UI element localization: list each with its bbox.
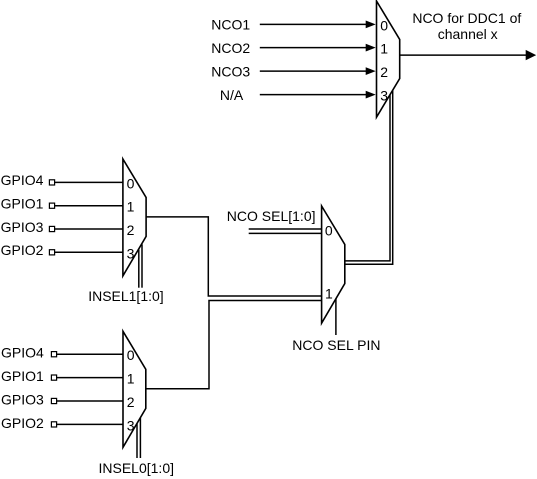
mux U3 INSEL0 [123,331,146,447]
svg-text:3: 3 [127,245,135,261]
svg-text:NCO for DDC1 of: NCO for DDC1 of [412,10,521,26]
wire U3 select bus INSEL0 [137,418,140,458]
svg-text:GPIO2: GPIO2 [1,415,44,431]
svg-text:1: 1 [380,41,388,57]
svg-text:GPIO4: GPIO4 [1,345,44,361]
wire NCO1 input [260,21,376,29]
wire NCO2 input [260,44,376,52]
svg-text:0: 0 [380,17,388,33]
svg-text:2: 2 [127,222,135,238]
mux U4 NCO SEL [322,206,345,323]
wire GPIO1 to U2 pin 1 [49,203,123,208]
wire GPIO2 to U2 pin 3 [49,250,123,255]
mux U1 NCO select [377,1,400,117]
svg-text:NCO SEL PIN: NCO SEL PIN [292,337,380,353]
wire U2 select bus INSEL1 [139,244,142,287]
svg-text:2: 2 [127,394,135,410]
svg-text:INSEL0[1:0]: INSEL0[1:0] [99,460,175,476]
svg-text:GPIO1: GPIO1 [1,368,44,384]
svg-text:0: 0 [127,347,135,363]
svg-text:GPIO3: GPIO3 [1,219,44,235]
svg-text:channel x: channel x [438,26,498,42]
wire GPIO2 to U3 pin 3 [51,422,123,427]
wire U3 output to U4 pin 1 (bus bit 0) [146,301,322,389]
svg-text:1: 1 [127,371,135,387]
svg-text:NCO SEL[1:0]: NCO SEL[1:0] [227,208,316,224]
wire NCO SEL[1:0] bus to U4 pin 0 [249,229,322,233]
svg-text:GPIO2: GPIO2 [1,242,44,258]
wire GPIO4 to U3 pin 0 [51,352,123,357]
svg-text:0: 0 [127,175,135,191]
svg-text:1: 1 [127,199,135,215]
svg-text:NCO3: NCO3 [211,63,250,79]
wire NCO3 input [260,67,376,75]
wire GPIO3 to U3 pin 2 [51,398,123,403]
svg-text:3: 3 [127,417,135,433]
wire U4 select NCO SEL PIN [335,299,337,336]
svg-text:3: 3 [380,88,388,104]
wire GPIO1 to U3 pin 1 [51,375,123,380]
svg-text:GPIO1: GPIO1 [1,196,44,212]
wire U1 output to NCO for DDC1 [400,50,537,60]
svg-text:INSEL1[1:0]: INSEL1[1:0] [88,288,164,304]
svg-text:NCO1: NCO1 [211,17,250,33]
svg-text:0: 0 [325,223,333,239]
svg-text:GPIO4: GPIO4 [1,172,44,188]
svg-text:N/A: N/A [220,87,244,103]
wire N/A input [260,91,376,99]
svg-text:GPIO3: GPIO3 [1,391,44,407]
wire GPIO3 to U2 pin 2 [49,226,123,231]
wire GPIO4 to U2 pin 0 [49,180,123,185]
svg-text:1: 1 [325,286,333,302]
label NCO for DDC1 of channel x [412,10,521,42]
wire U2 output to U4 pin 1 (bus bit 1) [146,217,322,296]
svg-text:2: 2 [380,64,388,80]
svg-text:NCO2: NCO2 [211,40,250,56]
mux U2 INSEL1 [123,159,146,276]
wire U4 output bus to U1 select [345,90,393,264]
